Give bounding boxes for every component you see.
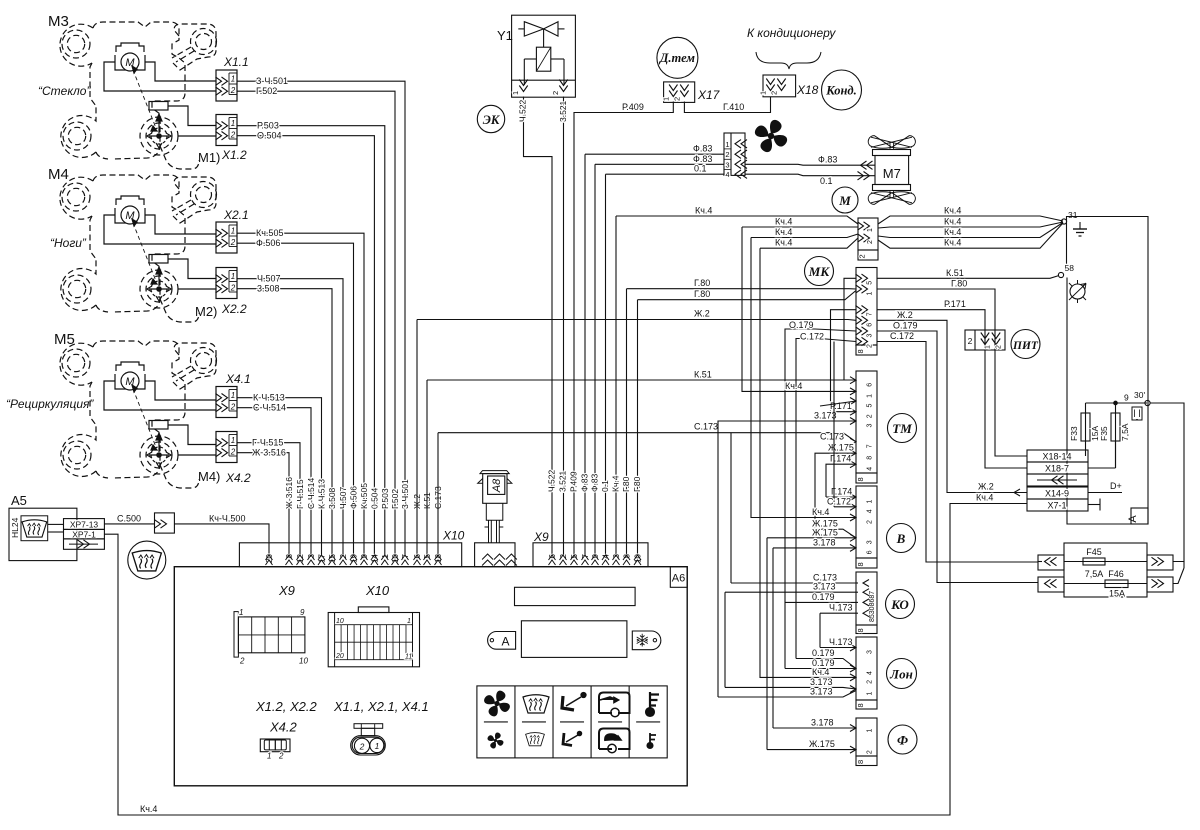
svg-text:2: 2 — [673, 97, 682, 101]
svg-text:К.51: К.51 — [946, 268, 964, 278]
svg-text:Г.410: Г.410 — [723, 102, 744, 112]
A8 legs — [488, 520, 490, 543]
svg-text:С.173: С.173 — [694, 422, 718, 432]
wire Ч.507 — [237, 279, 343, 556]
svg-text:Ж.175: Ж.175 — [809, 739, 835, 749]
svg-text:1: 1 — [267, 752, 271, 761]
svg-text:1: 1 — [867, 692, 874, 696]
svg-text:Кч.4: Кч.4 — [695, 206, 712, 216]
svg-text:3.521: 3.521 — [558, 470, 568, 492]
svg-text:7: 7 — [867, 312, 874, 316]
svg-text:8: 8 — [856, 349, 865, 353]
wire Кч.4 c — [751, 238, 856, 518]
svg-text:ПИТ: ПИТ — [1012, 340, 1039, 352]
wire О.179 into MK — [785, 329, 856, 669]
svg-text:2: 2 — [239, 657, 245, 666]
svg-text:Кч.4: Кч.4 — [775, 217, 792, 227]
Y1 pin 2 — [559, 80, 567, 92]
connector block Лон — [856, 637, 877, 700]
svg-text:3: 3 — [867, 540, 874, 544]
actuator module M4 dashed housing — [60, 175, 217, 322]
svg-text:М7: М7 — [883, 166, 901, 181]
wire icon to XP7-1 — [48, 531, 64, 533]
wire from fuse box to node 30' — [1150, 403, 1184, 562]
svg-text:10: 10 — [299, 657, 308, 666]
svg-text:Ж.175: Ж.175 — [812, 527, 838, 537]
connector block 4-pin — [724, 133, 745, 175]
svg-text:3.508: 3.508 — [257, 284, 280, 294]
lamp symbol — [1070, 284, 1085, 299]
svg-text:0.179: 0.179 — [812, 592, 835, 602]
svg-text:X14-9: X14-9 — [1045, 489, 1069, 499]
svg-text:О.179: О.179 — [893, 321, 918, 331]
svg-text:ЭК: ЭК — [483, 113, 501, 127]
wire О.1 to M7 — [745, 174, 875, 176]
svg-text:11: 11 — [405, 654, 412, 661]
svg-text:В: В — [896, 531, 906, 546]
circle ТМ — [888, 414, 917, 443]
wire С.173 TM pin7 — [730, 433, 732, 583]
svg-text:Ф.506: Ф.506 — [349, 486, 359, 509]
svg-text:2: 2 — [770, 91, 779, 95]
svg-text:Г.174: Г.174 — [830, 454, 851, 464]
svg-text:3.178: 3.178 — [811, 718, 834, 728]
wire D+ — [1088, 492, 1122, 494]
svg-text:Кч.4: Кч.4 — [812, 507, 829, 517]
wire С-Ч.514 — [237, 408, 311, 556]
svg-text:А6: А6 — [672, 573, 685, 585]
wire Кч-Ч.500 — [174, 524, 269, 556]
connector X1.2 — [216, 115, 238, 146]
svg-text:5: 5 — [867, 404, 874, 408]
wire 3.178 Ф — [773, 727, 856, 729]
svg-text:Кч.4: Кч.4 — [944, 227, 961, 237]
svg-text:Ф.506: Ф.506 — [256, 238, 280, 248]
motor M7 fan top — [868, 136, 915, 149]
svg-text:2: 2 — [968, 336, 973, 346]
connector icon X4.2 — [260, 739, 290, 752]
svg-text:Г.80: Г.80 — [694, 289, 710, 299]
connector ПИТ 2-pin — [965, 330, 1005, 350]
svg-text:Кч.505: Кч.505 — [359, 483, 369, 509]
svg-text:К.51: К.51 — [694, 370, 712, 380]
svg-text:1: 1 — [867, 729, 874, 733]
svg-text:Г.80: Г.80 — [951, 279, 967, 289]
frame A right — [1067, 217, 1149, 525]
svg-text:О.504: О.504 — [257, 131, 282, 141]
svg-text:0.1: 0.1 — [600, 480, 610, 492]
svg-text:Г-Ч.515: Г-Ч.515 — [252, 438, 283, 448]
svg-text:X18: X18 — [796, 83, 819, 97]
svg-text:3: 3 — [867, 650, 874, 654]
svg-text:15А: 15А — [1109, 589, 1125, 599]
display window 2 — [521, 621, 627, 658]
svg-text:КО: КО — [890, 597, 909, 612]
svg-text:1: 1 — [375, 741, 380, 751]
svg-text:Г.502: Г.502 — [256, 86, 277, 96]
fuse F45 — [1064, 561, 1147, 563]
ground symbol — [1079, 222, 1081, 229]
label box A — [1131, 508, 1148, 524]
circle Д.тем (temperature sensor) — [657, 37, 698, 78]
svg-text:ХР7-1: ХР7-1 — [72, 529, 96, 539]
connector X4.2 — [216, 432, 238, 463]
svg-text:Р.409: Р.409 — [569, 471, 579, 492]
wire Ф.506 — [237, 243, 354, 556]
svg-text:4: 4 — [867, 671, 874, 675]
connector left of fuse box row2 — [1038, 577, 1064, 592]
svg-text:Y1: Y1 — [497, 28, 513, 43]
svg-text:Ф.83: Ф.83 — [818, 155, 837, 165]
wire С.500 — [104, 523, 154, 525]
wire Г.174 В — [826, 496, 856, 498]
connector A8 row — [475, 543, 515, 567]
svg-text:Ф: Ф — [897, 733, 908, 748]
circle МК — [805, 257, 834, 286]
svg-text:8: 8 — [856, 703, 865, 707]
svg-text:М1): М1) — [198, 150, 220, 165]
svg-text:9: 9 — [300, 608, 305, 617]
circle ЭК — [477, 105, 504, 132]
wire К.51 branch MK pin5 — [844, 278, 856, 380]
svg-text:С.173: С.173 — [820, 431, 844, 441]
svg-text:2: 2 — [996, 345, 1003, 349]
svg-text:Г.80: Г.80 — [621, 476, 631, 492]
wire Ф.83 b — [594, 164, 596, 556]
svg-text:X4.1: X4.1 — [225, 372, 251, 386]
node 30' — [1145, 400, 1150, 405]
svg-text:Кч.4: Кч.4 — [775, 238, 792, 248]
svg-text:МК: МК — [808, 264, 831, 279]
motor M7 fan bottom — [868, 192, 915, 205]
icon seat airflow down — [563, 733, 572, 746]
component A8 — [480, 471, 509, 474]
wire Г.80 a — [626, 289, 628, 556]
svg-text:X18-14: X18-14 — [1042, 452, 1071, 462]
block A5 — [9, 508, 77, 560]
svg-text:6: 6 — [867, 323, 874, 327]
wire О.504 — [237, 136, 374, 556]
icon fan big — [484, 691, 510, 717]
svg-text:2: 2 — [867, 520, 874, 524]
svg-text:3.173: 3.173 — [810, 677, 833, 687]
row ХР7-1 — [64, 529, 105, 539]
svg-text:С.500: С.500 — [117, 513, 141, 523]
wire icon to XP7-13 — [48, 523, 64, 525]
wire F33 to X18-14 — [1085, 450, 1087, 456]
svg-text:2: 2 — [551, 91, 560, 95]
svg-text:3: 3 — [867, 424, 874, 428]
node 58 — [1058, 272, 1063, 277]
svg-text:0.179: 0.179 — [812, 648, 835, 658]
svg-text:3.521: 3.521 — [558, 100, 568, 122]
wire Кч.4 bottom — [104, 504, 1027, 816]
wire X7-1 tick — [1088, 504, 1100, 506]
svg-text:X4.2: X4.2 — [225, 471, 251, 485]
circle ПИТ — [1011, 330, 1040, 359]
svg-text:Конд.: Конд. — [825, 84, 857, 98]
svg-text:Р.503: Р.503 — [257, 121, 279, 131]
svg-text:9: 9 — [1124, 393, 1129, 403]
svg-text:X2.2: X2.2 — [221, 302, 247, 316]
actuator module M3 dashed housing — [60, 22, 217, 169]
svg-text:Кч.4: Кч.4 — [775, 227, 792, 237]
wire К-Ч.513 — [237, 398, 322, 556]
wire to fuses — [1086, 402, 1148, 404]
svg-text:X18-7: X18-7 — [1045, 464, 1069, 474]
svg-text:3.173: 3.173 — [810, 687, 833, 697]
wire Кч.505 — [237, 233, 364, 556]
svg-text:2: 2 — [858, 254, 867, 258]
svg-text:Лон: Лон — [889, 667, 913, 682]
wire О.179 КО — [785, 601, 856, 603]
svg-text:HL24: HL24 — [10, 517, 20, 538]
connector left of fuse box row1 — [1038, 555, 1064, 570]
svg-text:ХР7-13: ХР7-13 — [70, 519, 99, 529]
node 31 — [1061, 219, 1066, 224]
connector row X10 — [239, 543, 461, 567]
svg-text:3-Ч.501: 3-Ч.501 — [400, 479, 410, 509]
svg-text:3: 3 — [725, 160, 729, 169]
svg-text:2: 2 — [278, 752, 284, 761]
svg-text:1: 1 — [511, 91, 520, 95]
svg-text:31: 31 — [1068, 210, 1078, 220]
wire Р.503 — [237, 126, 385, 556]
svg-text:2: 2 — [867, 414, 874, 418]
svg-text:1: 1 — [867, 292, 874, 296]
svg-text:X1.1: X1.1 — [223, 55, 249, 69]
svg-text:Ч.507: Ч.507 — [338, 487, 348, 509]
svg-text:7,5А: 7,5А — [1085, 569, 1104, 579]
svg-text:Ж-3.516: Ж-3.516 — [284, 477, 294, 509]
svg-text:1: 1 — [867, 228, 874, 232]
wire diagonal pin5 — [820, 401, 856, 406]
svg-text:2: 2 — [867, 750, 874, 754]
svg-text:Ж.2: Ж.2 — [694, 309, 710, 319]
wire С.172 into MK — [796, 339, 856, 659]
svg-text:М2): М2) — [195, 304, 217, 319]
wire О.179 upper Лон — [796, 659, 856, 669]
connector X2.1 — [216, 222, 238, 253]
wire О.179 out MK — [877, 331, 1038, 583]
wire 3.173 upper Лон — [725, 687, 856, 689]
svg-text:3: 3 — [867, 334, 874, 338]
button snowflake — [632, 631, 661, 650]
svg-text:Кч.4: Кч.4 — [976, 493, 993, 503]
svg-text:Ч.507: Ч.507 — [257, 274, 281, 284]
icon recirculation vent — [599, 693, 630, 714]
icon defrost windshield small — [526, 733, 545, 746]
svg-text:1: 1 — [725, 140, 729, 149]
svg-text:Р.171: Р.171 — [944, 299, 966, 309]
svg-text:X1.2, X2.2: X1.2, X2.2 — [255, 699, 317, 714]
svg-text:6: 6 — [867, 550, 874, 554]
wire С.172 out MK — [877, 342, 1038, 563]
svg-text:Ф.83: Ф.83 — [693, 154, 712, 164]
wire Г.80 b — [637, 300, 639, 556]
svg-text:X2.1: X2.1 — [223, 208, 249, 222]
svg-text:Г.502: Г.502 — [390, 489, 400, 509]
svg-text:3.178: 3.178 — [813, 537, 836, 547]
svg-text:X10: X10 — [365, 583, 390, 598]
svg-text:2: 2 — [359, 741, 365, 751]
svg-text:F46: F46 — [1108, 569, 1124, 579]
svg-text:3.173: 3.173 — [814, 411, 837, 421]
svg-text:X7-1: X7-1 — [1047, 501, 1066, 511]
connector block В — [856, 486, 877, 558]
circle Ф — [888, 725, 917, 754]
svg-text:Г.80: Г.80 — [632, 476, 642, 492]
svg-text:С-Ч.514: С-Ч.514 — [253, 403, 286, 413]
svg-text:А5: А5 — [11, 493, 27, 508]
icon seat airflow up — [562, 696, 574, 710]
wire 3.173 TM — [718, 421, 856, 697]
motor M7 body — [873, 150, 911, 156]
svg-text:К-Ч.513: К-Ч.513 — [253, 393, 285, 403]
connector right of fuse box row2 — [1147, 577, 1173, 592]
svg-text:F33: F33 — [1069, 426, 1079, 441]
wire Ж.175 upper В — [815, 529, 856, 538]
connector block КО — [856, 572, 877, 625]
circle Конд (air conditioner) — [822, 70, 862, 110]
wire 3.521 — [563, 97, 565, 557]
display window 1 — [515, 587, 636, 605]
connector block МК — [856, 268, 877, 346]
svg-text:8: 8 — [856, 562, 865, 566]
wire Г.410 — [684, 97, 770, 113]
wire З-Ч.501 — [237, 81, 405, 556]
svg-text:Ж.2: Ж.2 — [897, 310, 913, 320]
svg-text:М3: М3 — [48, 13, 69, 30]
svg-text:X17: X17 — [697, 88, 721, 102]
circle В — [887, 524, 916, 553]
svg-text:0.1: 0.1 — [694, 164, 707, 174]
fuse F46 — [1064, 583, 1147, 585]
icon temperature small — [650, 733, 656, 748]
svg-text:А: А — [501, 634, 509, 648]
wire К.51 long — [426, 380, 428, 556]
connector block Ф — [856, 718, 877, 756]
wire 3.508 — [237, 289, 332, 556]
svg-text:1: 1 — [407, 618, 411, 625]
svg-text:2: 2 — [867, 344, 874, 348]
svg-text:1: 1 — [662, 97, 671, 101]
connector X4.1 — [216, 387, 238, 418]
svg-text:5: 5 — [867, 281, 874, 285]
svg-text:X1.1, X2.1, X4.1: X1.1, X2.1, X4.1 — [333, 699, 429, 714]
wire Кч.4 top — [615, 216, 617, 556]
svg-text:1: 1 — [867, 394, 874, 398]
svg-text:85308687: 85308687 — [869, 591, 876, 622]
battery symbol — [1132, 407, 1142, 420]
button A — [488, 632, 516, 650]
svg-text:F35: F35 — [1099, 426, 1109, 441]
svg-text:Кч.4: Кч.4 — [611, 475, 621, 492]
icon grid — [477, 686, 667, 758]
wire Ж.175 Ф — [767, 749, 856, 751]
connector right of fuse box row1 — [1147, 555, 1173, 570]
svg-text:Кч-Ч.500: Кч-Ч.500 — [209, 513, 245, 523]
wiper heater circle — [128, 541, 166, 579]
connector chevron box A5 — [155, 513, 175, 533]
svg-text:С.172: С.172 — [800, 332, 824, 342]
svg-text:Ч.522: Ч.522 — [547, 470, 557, 492]
svg-text:Р.409: Р.409 — [622, 102, 644, 112]
Y1 pin 1 — [519, 80, 527, 92]
wire 3.173 lower Лон — [718, 691, 856, 698]
svg-text:X9: X9 — [278, 583, 295, 598]
icon fan small — [488, 733, 504, 749]
svg-text:Ж-3.516: Ж-3.516 — [252, 448, 286, 458]
wire Ф.83 a — [584, 154, 586, 556]
svg-text:О.179: О.179 — [789, 320, 814, 330]
svg-text:X9: X9 — [533, 530, 549, 544]
svg-text:М4): М4) — [198, 469, 220, 484]
solenoid coil — [543, 29, 545, 47]
wire 3.173 КО — [725, 591, 856, 593]
svg-text:10: 10 — [336, 618, 344, 625]
svg-text:А: А — [1127, 515, 1139, 523]
wire О.1 — [605, 174, 607, 556]
wire Кч.4 b — [742, 227, 856, 391]
circle М — [832, 187, 858, 213]
circle Лон — [887, 659, 917, 689]
fuse F33 — [1085, 403, 1087, 450]
svg-text:С-Ч.514: С-Ч.514 — [306, 478, 316, 509]
svg-text:М: М — [838, 193, 851, 208]
wire Ж.2 out MK — [877, 320, 1027, 492]
connector rows X18 — [1027, 450, 1088, 462]
wire Р.171 out MK — [877, 310, 1027, 468]
svg-text:D+: D+ — [1110, 481, 1122, 491]
svg-text:4: 4 — [867, 509, 874, 513]
wire С.173 long — [437, 433, 439, 556]
svg-text:Ф.83: Ф.83 — [590, 473, 600, 492]
svg-text:0.504: 0.504 — [369, 487, 379, 509]
svg-text:8: 8 — [856, 628, 865, 632]
svg-text:X10: X10 — [442, 529, 465, 543]
svg-text:К кондиционеру: К кондиционеру — [747, 26, 836, 40]
svg-text:Кч.4: Кч.4 — [944, 217, 961, 227]
svg-text:М4: М4 — [48, 166, 69, 183]
row ХР7-13 — [64, 519, 105, 530]
wire Кч.4 d — [760, 248, 856, 677]
label box A6 — [670, 567, 687, 588]
svg-text:Ж.175: Ж.175 — [828, 443, 854, 453]
svg-text:Кч.4: Кч.4 — [944, 206, 961, 216]
wire Ч.173 Лон — [820, 647, 856, 649]
svg-text:С.172: С.172 — [890, 331, 914, 341]
svg-text:2: 2 — [725, 150, 729, 159]
A8 neck — [486, 503, 503, 520]
svg-text:Р.503: Р.503 — [380, 488, 390, 509]
svg-text:Кч.505: Кч.505 — [256, 228, 283, 238]
svg-text:Ф.83: Ф.83 — [580, 473, 590, 492]
svg-text:Ч.173: Ч.173 — [829, 603, 853, 613]
svg-text:F45: F45 — [1086, 547, 1102, 557]
wire Г-Ч.515 — [237, 443, 300, 556]
icon recirculation loop — [599, 729, 630, 750]
svg-text:X4.2: X4.2 — [269, 720, 298, 735]
solenoid valve Y1 box — [512, 15, 576, 97]
svg-text:М5: М5 — [54, 331, 75, 348]
wire Ж.175 lower В — [767, 537, 856, 539]
wire Ф.83 to M7 — [745, 163, 875, 166]
svg-text:Д.тем: Д.тем — [659, 51, 695, 65]
connector block ТМ — [856, 371, 877, 473]
svg-text:2: 2 — [867, 240, 874, 244]
connector X2.2 — [216, 268, 238, 299]
